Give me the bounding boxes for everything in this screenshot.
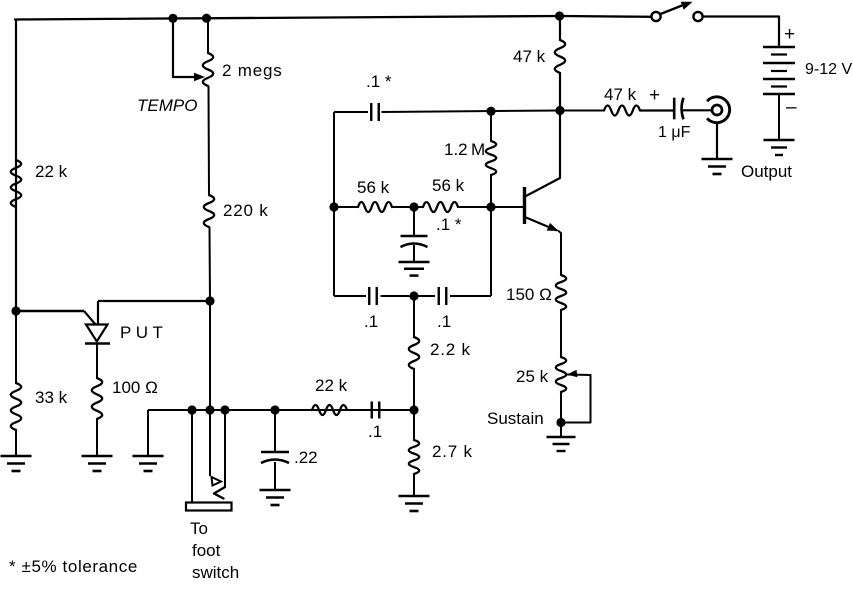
svg-text:1 μF: 1 μF — [658, 124, 691, 141]
wire twinT right edge — [490, 207, 492, 296]
resistor 1.2M — [486, 141, 496, 175]
svg-text:1.2 M: 1.2 M — [444, 140, 485, 159]
capacitor .1* mid — [401, 235, 428, 237]
wire jack tip drop — [209, 410, 211, 476]
wire 2.7k to ground — [413, 474, 415, 496]
resistor 2.2k — [409, 337, 419, 369]
arrowhead tempo wiper — [194, 73, 205, 81]
wire 47k collector top — [559, 16, 561, 40]
svg-text:2.7 k: 2.7 k — [432, 442, 473, 461]
ground under 25k — [547, 436, 576, 438]
wire bottomT to 2.2k — [413, 296, 415, 337]
wire jack sleeve drop — [191, 410, 193, 503]
wire gate horizontal — [16, 310, 84, 313]
capacitor .1* top — [370, 103, 372, 121]
arrowhead 25k wiper — [567, 370, 577, 378]
resistor 2.7k — [409, 440, 419, 474]
wire jack spring drop — [224, 410, 226, 487]
resistor 22k left — [11, 160, 21, 207]
wire 47k out lead — [640, 109, 673, 111]
svg-text:.1 *: .1 * — [436, 215, 462, 234]
wire cap to jack — [683, 109, 713, 111]
switch S1 left contact — [651, 12, 660, 21]
jack plate — [186, 503, 232, 511]
ground output — [702, 158, 733, 161]
ground battery — [764, 139, 795, 141]
wire 33k branch — [15, 311, 17, 383]
wire pot top — [207, 18, 209, 53]
resistor 47k output — [604, 106, 640, 116]
wire pot to 220k — [208, 86, 211, 195]
wire 56k a lead — [334, 206, 358, 208]
svg-text:33 k: 33 k — [35, 388, 68, 407]
resistor 25k — [556, 357, 566, 392]
svg-text:.1: .1 — [368, 422, 382, 441]
wire 1.2M bottom — [490, 175, 492, 207]
svg-text:.1: .1 — [364, 312, 378, 331]
switch S1 arm — [661, 4, 688, 15]
capacitor .22 — [261, 451, 289, 453]
svg-text:220 k: 220 k — [223, 201, 269, 220]
node jack spring feed — [220, 405, 229, 414]
wire 33k to ground — [15, 430, 17, 456]
resistor 33k — [11, 383, 21, 430]
resistor 22k bus — [312, 405, 347, 415]
node junction collector branch on top rail — [555, 11, 564, 20]
wire cathode to 100ohm — [96, 344, 98, 379]
wire bus to 2.7k — [413, 410, 415, 440]
transistor Q2 bar — [523, 187, 526, 224]
wire top supply rail — [15, 16, 651, 20]
wire twinT top right — [382, 111, 561, 113]
switch S1 right contact — [693, 12, 702, 21]
node junction tempo-arm on top rail — [168, 14, 177, 23]
wire anode drop — [97, 301, 99, 325]
svg-text:Sustain: Sustain — [487, 409, 544, 428]
svg-text:+: + — [784, 24, 795, 45]
svg-text:.1 *: .1 * — [366, 72, 392, 91]
node mid-left node — [329, 202, 338, 211]
wire switch to battery — [703, 17, 779, 46]
svg-text:9-12 V: 9-12 V — [805, 61, 852, 78]
transistor Q2 emitter — [526, 218, 557, 231]
ground under 100ohm — [82, 455, 113, 458]
wire tempo arm — [173, 18, 197, 77]
node bottom node — [409, 291, 418, 300]
wire anode horizontal — [98, 300, 210, 302]
wire ground stub — [147, 410, 149, 456]
jack spring contact — [214, 487, 225, 499]
potentiometer 2 megs — [203, 53, 213, 86]
wire 150 to 25k — [560, 310, 562, 357]
node junction pot-top on top rail — [202, 14, 211, 23]
wire 56k mid — [392, 206, 423, 208]
jack tip arrow contact — [212, 477, 222, 486]
svg-text:22 k: 22 k — [315, 376, 348, 395]
wire twinT left edge — [333, 112, 335, 296]
transistor PUT Q1 triangle — [86, 325, 108, 342]
svg-text:foot: foot — [192, 541, 221, 560]
wire mid cap drop — [413, 207, 415, 236]
node collector node — [555, 106, 564, 115]
transistor Q2 collector — [526, 111, 560, 196]
wire 100ohm to ground — [96, 419, 98, 456]
capacitor .1 coupling — [371, 402, 373, 419]
svg-text:.1: .1 — [437, 312, 451, 331]
ground small twinT — [399, 261, 430, 264]
wire twinT bottom mid — [381, 295, 436, 297]
svg-text:150 Ω: 150 Ω — [506, 285, 552, 304]
wire emitter drop — [559, 231, 562, 275]
wire twinT bottom left — [334, 295, 366, 297]
svg-text:TEMPO: TEMPO — [137, 96, 197, 115]
wire 56k b lead — [458, 206, 491, 208]
node jack sleeve — [187, 405, 196, 414]
wire bottom bus — [148, 409, 414, 411]
arrowhead switch arm — [681, 2, 693, 10]
ground under 33k — [1, 455, 32, 458]
node top node — [486, 107, 495, 116]
wire left rail vertical — [15, 20, 17, 312]
svg-text:47 k: 47 k — [513, 47, 546, 66]
wire twinT top left — [334, 111, 368, 113]
capacitor .1 bottom-right — [438, 287, 440, 305]
wire collector to 47k out — [560, 110, 604, 112]
node .22 junction — [270, 405, 279, 414]
wire anode junction down to bus — [209, 301, 211, 410]
svg-text:.22: .22 — [294, 448, 318, 467]
ground under 2.7k — [399, 495, 430, 498]
connector output jack — [707, 97, 730, 123]
wire base lead — [491, 206, 523, 208]
capacitor 1uF — [673, 98, 676, 120]
wire 1.2M top — [490, 111, 492, 141]
transistor PUT cathode bar — [85, 342, 110, 345]
svg-text:25 k: 25 k — [516, 367, 549, 386]
svg-text:+: + — [649, 85, 660, 106]
wire .22 top — [274, 410, 276, 452]
wire 25k wiper return — [562, 375, 591, 423]
battery B1 9-12V — [763, 46, 795, 49]
ground under .22 — [260, 489, 291, 492]
wire .22 to ground — [274, 462, 276, 490]
svg-text:56 k: 56 k — [432, 176, 465, 195]
svg-text:To: To — [190, 519, 208, 538]
svg-text:2.2 k: 2.2 k — [430, 340, 471, 359]
svg-text:–: – — [786, 97, 797, 118]
wire 2.2k to bus — [413, 369, 415, 410]
node jack tip feed — [205, 405, 214, 414]
wire jack to ground — [716, 123, 718, 160]
svg-text:100 Ω: 100 Ω — [112, 378, 158, 397]
arrowhead emitter — [547, 223, 559, 231]
svg-text:2 megs: 2 megs — [222, 61, 283, 80]
wire mid cap to ground — [413, 245, 415, 262]
resistor 220k — [204, 195, 214, 227]
node base node — [486, 202, 495, 211]
svg-text:56 k: 56 k — [357, 178, 390, 197]
wire battery to ground — [778, 95, 780, 140]
resistor 56k b — [423, 202, 458, 212]
wire 220k to anode junction — [209, 227, 212, 301]
svg-text:switch: switch — [192, 563, 239, 582]
svg-text:22 k: 22 k — [35, 162, 68, 181]
ground foot-switch bus — [133, 455, 164, 458]
node divider junction — [409, 405, 418, 414]
svg-text:47 k: 47 k — [604, 85, 637, 104]
svg-text:P U T: P U T — [120, 323, 163, 342]
resistor 56k a — [358, 202, 392, 212]
node sustain node — [556, 418, 565, 427]
node anode junction — [205, 296, 214, 305]
node gate junction — [11, 306, 20, 315]
node mid node — [409, 202, 418, 211]
wire twinT bottom right — [450, 295, 491, 297]
resistor 47k collector — [555, 40, 565, 73]
wire sustain to ground — [560, 423, 562, 438]
resistor 100 ohm — [92, 378, 102, 419]
wire 47k collector bottom — [559, 73, 561, 111]
svg-text:Output: Output — [741, 162, 792, 181]
capacitor .1 bottom-left — [368, 287, 370, 305]
resistor 150 ohm — [556, 275, 566, 310]
wire gate diagonal — [84, 311, 96, 325]
svg-text:* ±5% tolerance: * ±5% tolerance — [9, 557, 138, 576]
wire 25k bottom — [560, 392, 562, 423]
